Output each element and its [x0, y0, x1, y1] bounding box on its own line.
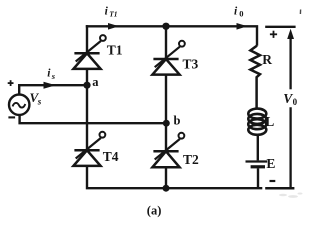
svg-text:E: E [266, 156, 275, 171]
node b [163, 120, 170, 127]
wire source bottom to node b [20, 115, 166, 124]
svg-text:T4: T4 [103, 149, 119, 164]
wire source top to node a [19, 85, 87, 94]
wire T3 to node b to T2 [165, 75, 167, 152]
svg-text:T1: T1 [109, 10, 117, 19]
wire T2 bottom [165, 167, 167, 188]
wire top rail (T1 top to load corner) [86, 26, 257, 46]
svg-text:s: s [51, 71, 56, 81]
svg-text:R: R [262, 52, 272, 67]
arrow is [44, 82, 56, 89]
V0 bottom bar [265, 187, 294, 190]
svg-text:i: i [234, 6, 238, 18]
arrow V0 [287, 29, 294, 39]
ac source Vs [9, 95, 29, 115]
thyristor T1 [73, 35, 105, 69]
inductor L [248, 109, 266, 135]
node a [83, 82, 90, 89]
svg-text:(a): (a) [147, 204, 162, 218]
arrow i0 [237, 23, 248, 30]
wire V0 shaft upper [289, 33, 291, 89]
wire T3 branch top [165, 26, 167, 59]
svg-text:T1: T1 [107, 42, 123, 57]
wire V0 shaft lower [289, 107, 291, 188]
wire T4 bottom + bottom rail [87, 166, 262, 188]
battery E [246, 162, 268, 167]
stray tick mark top right [299, 10, 301, 15]
svg-text:b: b [174, 114, 181, 128]
wire inductor to battery [257, 136, 259, 161]
svg-text:i: i [105, 6, 109, 18]
plus sign V0 [270, 31, 277, 38]
thyristor T2 [152, 133, 184, 168]
thyristor T4 [73, 132, 105, 166]
wire T1 branch top [86, 25, 88, 53]
stray smudge bottom right [279, 193, 303, 198]
svg-text:0: 0 [293, 97, 298, 107]
svg-text:T3: T3 [183, 57, 199, 72]
arrow iT1 [108, 23, 119, 30]
wire battery to bottom rail [257, 168, 259, 188]
resistor R [250, 46, 260, 109]
thyristor T3 [152, 41, 184, 75]
V0 top bar [265, 26, 295, 28]
minus sign V0 [270, 180, 276, 182]
minus sign source [8, 116, 15, 118]
svg-text:T2: T2 [183, 152, 199, 167]
svg-text:a: a [92, 75, 99, 89]
svg-text:L: L [265, 114, 274, 129]
svg-text:0: 0 [239, 9, 243, 19]
node T2 bottom junction [163, 185, 170, 192]
svg-text:s: s [37, 97, 42, 107]
wire T1 to node a to T4 [86, 69, 88, 150]
plus sign source [8, 80, 14, 86]
node T3 top junction [162, 23, 169, 30]
svg-text:i: i [47, 68, 51, 80]
